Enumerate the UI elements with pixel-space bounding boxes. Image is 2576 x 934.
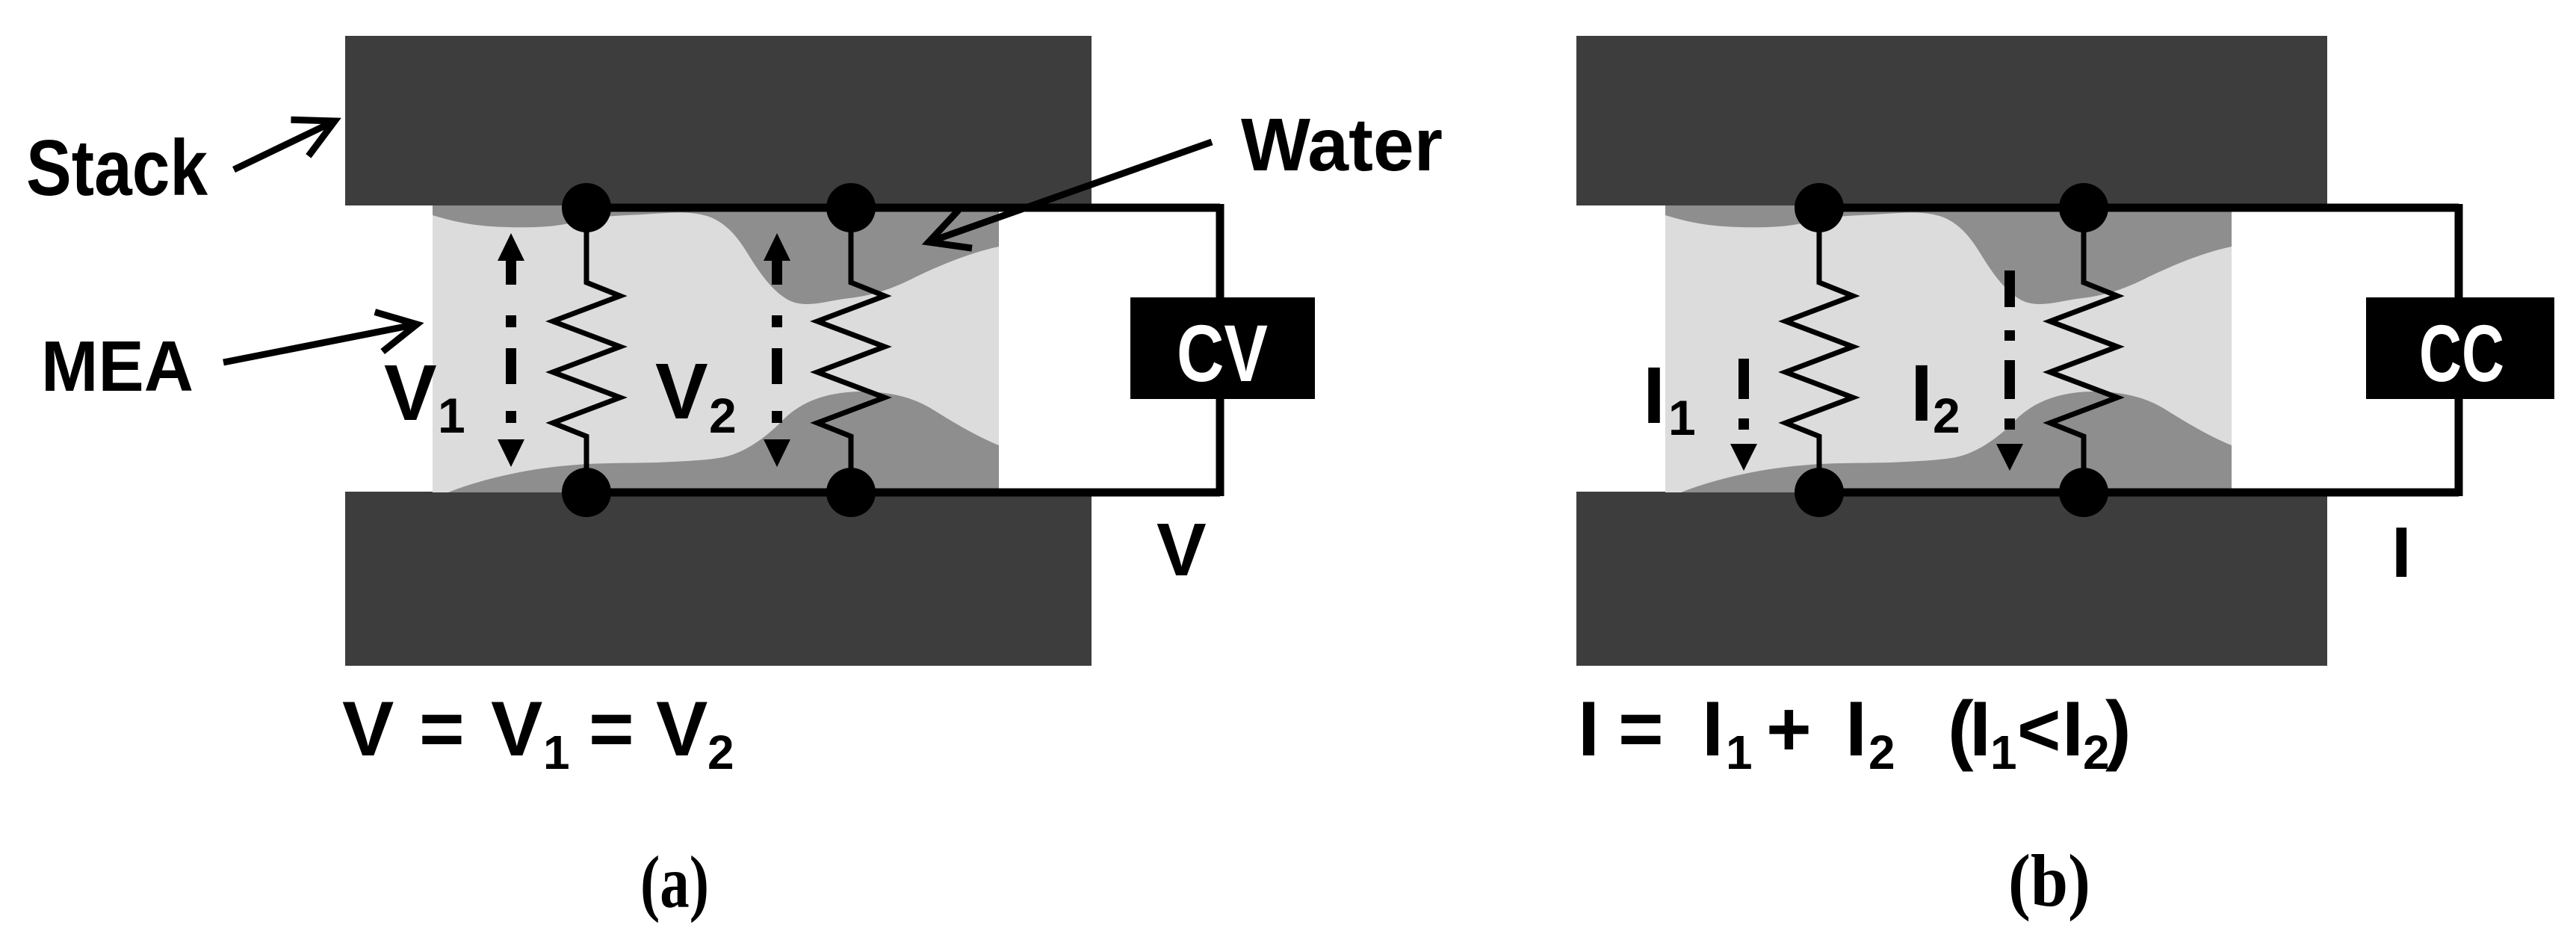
arrow Stack xyxy=(234,121,335,170)
label V1 (a) xyxy=(384,349,465,443)
wire top (b) xyxy=(1819,204,2459,212)
node bottom-right (a) xyxy=(826,468,876,517)
node top-right (b) xyxy=(2059,183,2108,232)
arrow Water xyxy=(929,142,1212,242)
svg-text:V: V xyxy=(656,686,708,773)
V1 measurement arrow (a) xyxy=(498,233,524,467)
svg-text:V: V xyxy=(491,686,542,773)
svg-text:I: I xyxy=(1643,350,1665,440)
equation V = V1 = V2 xyxy=(342,686,734,779)
label I2 (b) xyxy=(1910,347,1960,443)
resistor R2 (a) xyxy=(817,208,885,492)
svg-text:V: V xyxy=(342,686,394,773)
MEA layer with water blobs (a) xyxy=(433,205,999,492)
svg-text:2: 2 xyxy=(1933,388,1960,443)
label I1 (b) xyxy=(1643,350,1696,445)
resistor R1 (a) xyxy=(553,208,620,492)
node bottom-right (b) xyxy=(2059,468,2108,517)
wire top (a) xyxy=(586,204,1220,212)
arrow MEA xyxy=(223,324,417,362)
node top-left (a) xyxy=(562,183,611,232)
svg-text:MEA: MEA xyxy=(41,327,193,406)
svg-text:1: 1 xyxy=(1726,726,1753,779)
svg-text:+: + xyxy=(1766,686,1812,773)
node top-left (b) xyxy=(1795,183,1844,232)
CC box U2 xyxy=(2366,297,2554,399)
svg-text:2: 2 xyxy=(708,726,734,779)
I1 current arrow (b) xyxy=(1730,359,1757,471)
label V2 (a) xyxy=(655,347,737,443)
svg-text:1: 1 xyxy=(543,726,570,779)
resistor R2 (b) xyxy=(2050,208,2117,492)
svg-text:1: 1 xyxy=(438,388,465,443)
svg-text:CC: CC xyxy=(2419,308,2504,398)
svg-text:I: I xyxy=(1910,347,1933,438)
svg-text:Stack: Stack xyxy=(26,124,208,212)
svg-text:<: < xyxy=(2017,688,2061,772)
svg-text:(a): (a) xyxy=(640,841,709,924)
svg-text:I: I xyxy=(1845,686,1867,773)
stack top bar (a) xyxy=(345,36,1092,205)
svg-text:I: I xyxy=(2391,513,2412,593)
wire right vertical (a) xyxy=(1216,204,1224,496)
resistor R1 (b) xyxy=(1786,208,1853,492)
equation I = I1 + I2 (I1 < I2) xyxy=(1578,686,2131,779)
wire right vertical (b) xyxy=(2455,204,2463,496)
stack bottom bar (b) xyxy=(1576,492,2327,666)
V2 measurement arrow (a) xyxy=(764,233,790,467)
svg-text:1: 1 xyxy=(1990,726,2017,779)
svg-text:I: I xyxy=(1969,686,1991,773)
svg-text:Water: Water xyxy=(1241,103,1443,187)
svg-text:1: 1 xyxy=(1668,390,1696,445)
svg-text:(b): (b) xyxy=(2008,839,2090,922)
svg-text:): ) xyxy=(2105,686,2131,773)
svg-text:I: I xyxy=(1702,686,1724,773)
svg-text:V: V xyxy=(655,347,708,436)
I2 current arrow (b) xyxy=(1996,270,2023,471)
svg-text:V: V xyxy=(384,349,437,437)
wire bottom (b) xyxy=(1819,489,2459,497)
wire bottom (a) xyxy=(586,489,1220,497)
svg-text:V: V xyxy=(1157,508,1207,592)
svg-text:I: I xyxy=(2062,686,2084,773)
node bottom-left (a) xyxy=(562,468,611,517)
CV box U1 xyxy=(1130,297,1315,399)
node bottom-left (b) xyxy=(1795,468,1844,517)
stack bottom bar (a) xyxy=(345,492,1092,666)
stack top bar (b) xyxy=(1576,36,2327,205)
svg-text:I: I xyxy=(1578,686,1600,773)
svg-text:=: = xyxy=(589,686,634,773)
svg-text:2: 2 xyxy=(1868,726,1895,779)
svg-text:2: 2 xyxy=(709,388,737,443)
svg-text:CV: CV xyxy=(1177,308,1268,398)
MEA layer with water blobs (b) xyxy=(1665,205,2232,492)
node top-right (a) xyxy=(826,183,876,232)
svg-text:=: = xyxy=(1618,686,1664,773)
svg-text:=: = xyxy=(419,686,465,773)
